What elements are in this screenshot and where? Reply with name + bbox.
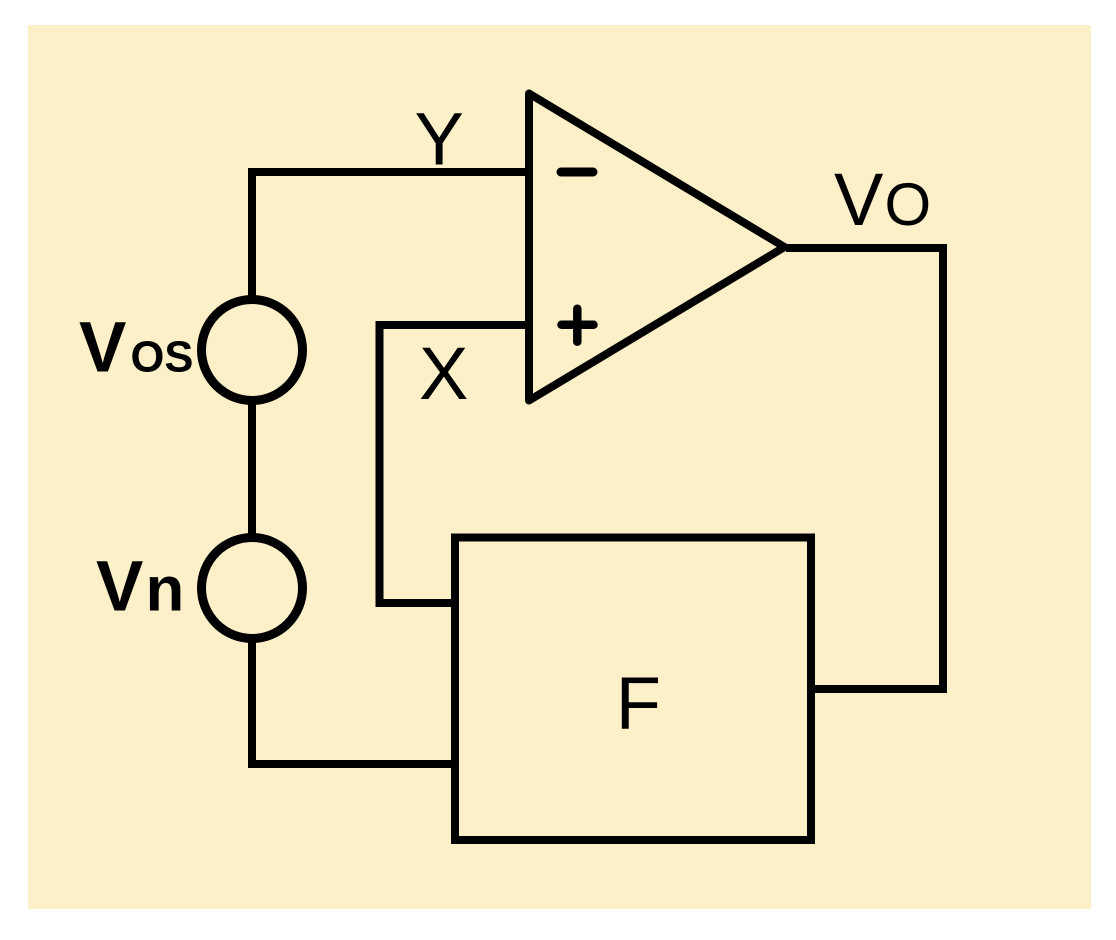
svg-text:F: F xyxy=(616,662,661,745)
svg-text:V: V xyxy=(834,158,884,241)
svg-text:V: V xyxy=(79,309,126,388)
svg-text:V: V xyxy=(96,548,143,627)
svg-text:OS: OS xyxy=(131,334,194,382)
svg-text:n: n xyxy=(146,555,185,625)
svg-text:O: O xyxy=(885,171,932,238)
svg-text:X: X xyxy=(419,332,468,415)
svg-text:Y: Y xyxy=(415,98,464,181)
